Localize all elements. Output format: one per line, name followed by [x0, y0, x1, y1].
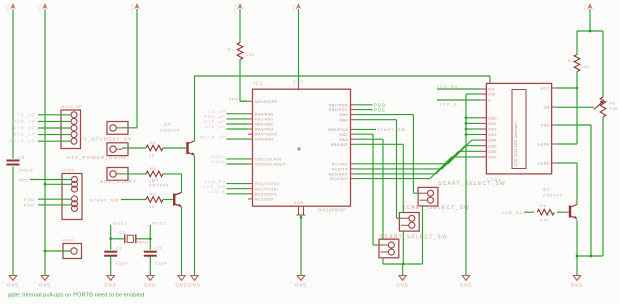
svg-text:RXD_UP: RXD_UP	[13, 119, 36, 124]
svg-text:RB4: RB4	[339, 118, 348, 122]
svg-text:10k: 10k	[246, 53, 255, 57]
svg-text:R1: R1	[227, 48, 234, 52]
svg-text:OSC1: OSC1	[113, 221, 128, 226]
svg-text:RA2/AN2: RA2/AN2	[255, 123, 274, 127]
svg-text:IC1: IC1	[254, 81, 264, 86]
svg-text:TX_UP: TX_UP	[17, 112, 36, 117]
svg-text:RS: RS	[488, 88, 494, 92]
svg-text:LCD_BL: LCD_BL	[502, 210, 523, 215]
svg-text:ICSP: ICSP	[62, 168, 75, 173]
svg-text:RA1/AN1: RA1/AN1	[255, 118, 274, 122]
svg-text:PGC: PGC	[374, 108, 386, 113]
svg-text:LCD4: LCD4	[487, 177, 501, 182]
svg-text:RA5/AN4: RA5/AN4	[255, 138, 274, 142]
svg-text:RC0/T1OSO: RC0/T1OSO	[255, 182, 280, 186]
svg-text:RB2: RB2	[339, 133, 348, 137]
svg-text:MCLR/VPP: MCLR/VPP	[255, 100, 278, 104]
svg-text:2N3904: 2N3904	[160, 128, 180, 133]
svg-text:GND: GND	[188, 283, 200, 288]
svg-text:START_SW: START_SW	[90, 197, 119, 202]
svg-text:DB6: DB6	[488, 150, 497, 154]
svg-text:RC4/SDI: RC4/SDI	[330, 177, 348, 181]
svg-text:22pF: 22pF	[156, 262, 168, 266]
svg-text:1k: 1k	[149, 154, 155, 158]
svg-text:LCD_E: LCD_E	[440, 102, 458, 107]
svg-text:GND: GND	[175, 283, 187, 288]
svg-text:Q4: Q4	[164, 122, 171, 127]
svg-text:OSC2: OSC2	[211, 159, 226, 164]
svg-text:RA0/AN0: RA0/AN0	[255, 112, 274, 116]
svg-text:VO: VO	[543, 106, 549, 110]
svg-text:470: 470	[540, 219, 549, 223]
svg-text:R6: R6	[540, 204, 547, 208]
svg-text:DB5: DB5	[488, 144, 497, 148]
svg-text:VSS: VSS	[294, 201, 304, 205]
svg-text:+5V: +5V	[233, 4, 237, 14]
svg-text:ADC_START: ADC_START	[100, 179, 137, 184]
svg-text:LCD_E: LCD_E	[208, 189, 226, 194]
svg-text:C1: C1	[116, 246, 123, 250]
svg-text:R9: R9	[610, 102, 617, 106]
svg-text:SCART_SELECT_SW: SCART_SELECT_SW	[380, 235, 448, 241]
svg-text:E: E	[488, 99, 491, 103]
svg-text:LEDA: LEDA	[538, 143, 550, 147]
svg-text:VSS: VSS	[541, 124, 550, 128]
svg-text:PIC16F876P: PIC16F876P	[318, 207, 346, 212]
svg-text:Q2: Q2	[543, 187, 550, 192]
svg-text:DB4: DB4	[488, 139, 497, 143]
svg-text:MCLR_UP: MCLR_UP	[200, 134, 226, 139]
svg-text:22pF: 22pF	[116, 262, 128, 266]
svg-text:R5: R5	[150, 193, 157, 197]
svg-text:RTS_UP: RTS_UP	[13, 132, 36, 137]
svg-text:R3: R3	[150, 167, 157, 171]
svg-text:MSU_5P: MSU_5P	[61, 104, 83, 109]
svg-text:100nF: 100nF	[18, 168, 34, 173]
svg-text:GND: GND	[105, 283, 117, 288]
svg-text:RB6/PGC: RB6/PGC	[329, 108, 348, 112]
svg-text:R7: R7	[568, 59, 575, 63]
svg-text:RC1/T1OSI: RC1/T1OSI	[255, 187, 278, 191]
svg-text:RC5/SDO: RC5/SDO	[328, 173, 348, 177]
svg-text:PGD: PGD	[24, 198, 35, 202]
svg-text:12V_UP: 12V_UP	[205, 124, 226, 129]
svg-text:GND: GND	[7, 283, 19, 288]
svg-text:OSC2/CLKOUT: OSC2/CLKOUT	[255, 163, 286, 167]
svg-text:+5V: +5V	[130, 4, 134, 14]
svg-text:VCC: VCC	[540, 87, 549, 91]
svg-text:R4: R4	[150, 141, 157, 145]
svg-text:DB3: DB3	[488, 133, 497, 137]
svg-text:RA4/T0CKI: RA4/T0CKI	[255, 133, 278, 137]
svg-text:RC6/TX: RC6/TX	[332, 168, 348, 172]
svg-text:C2: C2	[156, 246, 163, 250]
svg-text:RB7/PGD: RB7/PGD	[329, 103, 348, 107]
svg-text:DTR_UP: DTR_UP	[13, 126, 36, 131]
svg-text:GND: GND	[144, 283, 156, 288]
svg-text:C3: C3	[18, 155, 25, 160]
svg-text:START_SW: START_SW	[377, 127, 406, 132]
svg-text:+5V: +5V	[38, 4, 42, 14]
svg-text:DB1: DB1	[488, 122, 497, 126]
svg-text:ATX_POWER_GOOD: ATX_POWER_GOOD	[67, 155, 128, 160]
svg-text:OSC1/CLKIN: OSC1/CLKIN	[255, 158, 281, 162]
svg-text:RB0/INT: RB0/INT	[331, 143, 349, 147]
svg-text:DB7: DB7	[488, 156, 497, 160]
svg-text:LCD_RS: LCD_RS	[437, 84, 459, 89]
svg-text:10k: 10k	[610, 107, 619, 111]
svg-text:LEDK: LEDK	[538, 162, 550, 166]
svg-text:1k: 1k	[149, 205, 155, 209]
svg-text:DB0: DB0	[488, 116, 497, 120]
svg-text:RB1: RB1	[339, 138, 348, 142]
svg-text:RW: RW	[488, 93, 495, 97]
svg-text:DB2: DB2	[488, 128, 497, 132]
svg-text:GND: GND	[460, 283, 472, 288]
svg-text:RC2/CCP1: RC2/CCP1	[255, 192, 277, 196]
svg-text:+5V: +5V	[583, 4, 587, 14]
svg-text:100: 100	[581, 65, 590, 69]
svg-text:PGC: PGC	[24, 204, 35, 208]
svg-text:SCART_SELECT_SW: SCART_SELECT_SW	[402, 205, 470, 211]
svg-text:VPP: VPP	[229, 97, 239, 101]
svg-text:VPP: VPP	[19, 179, 29, 183]
svg-text:4MHz: 4MHz	[136, 240, 150, 244]
svg-text:LCD 2x16 LED backlight: LCD 2x16 LED backlight	[514, 122, 518, 166]
svg-text:2N3904: 2N3904	[149, 183, 169, 188]
svg-text:pjde: Internal pull-ups on POR: pjde: Internal pull-ups on PORTB need to…	[8, 293, 144, 299]
svg-text:OSC2: OSC2	[152, 221, 167, 226]
svg-text:GND: GND	[295, 283, 307, 288]
svg-text:2N3904: 2N3904	[543, 193, 563, 198]
svg-text:Q5: Q5	[152, 177, 159, 182]
svg-text:RA3/AN3: RA3/AN3	[255, 128, 274, 132]
svg-text:GND: GND	[396, 283, 408, 288]
svg-text:MCLR_UP: MCLR_UP	[9, 139, 36, 144]
svg-text:RB5: RB5	[339, 113, 348, 117]
svg-text:GND: GND	[39, 283, 51, 288]
svg-text:TV_STANDBY_5V: TV_STANDBY_5V	[80, 137, 132, 142]
svg-text:+5V: +5V	[6, 4, 10, 14]
svg-text:GND: GND	[63, 238, 75, 243]
svg-text:RB3/PGM: RB3/PGM	[328, 128, 348, 132]
svg-text:GND: GND	[571, 283, 583, 288]
svg-text:Q1: Q1	[119, 231, 126, 235]
svg-text:+5V: +5V	[292, 4, 296, 14]
svg-text:RC7/RX: RC7/RX	[332, 162, 348, 166]
svg-text:RC3/SCK: RC3/SCK	[255, 198, 274, 202]
